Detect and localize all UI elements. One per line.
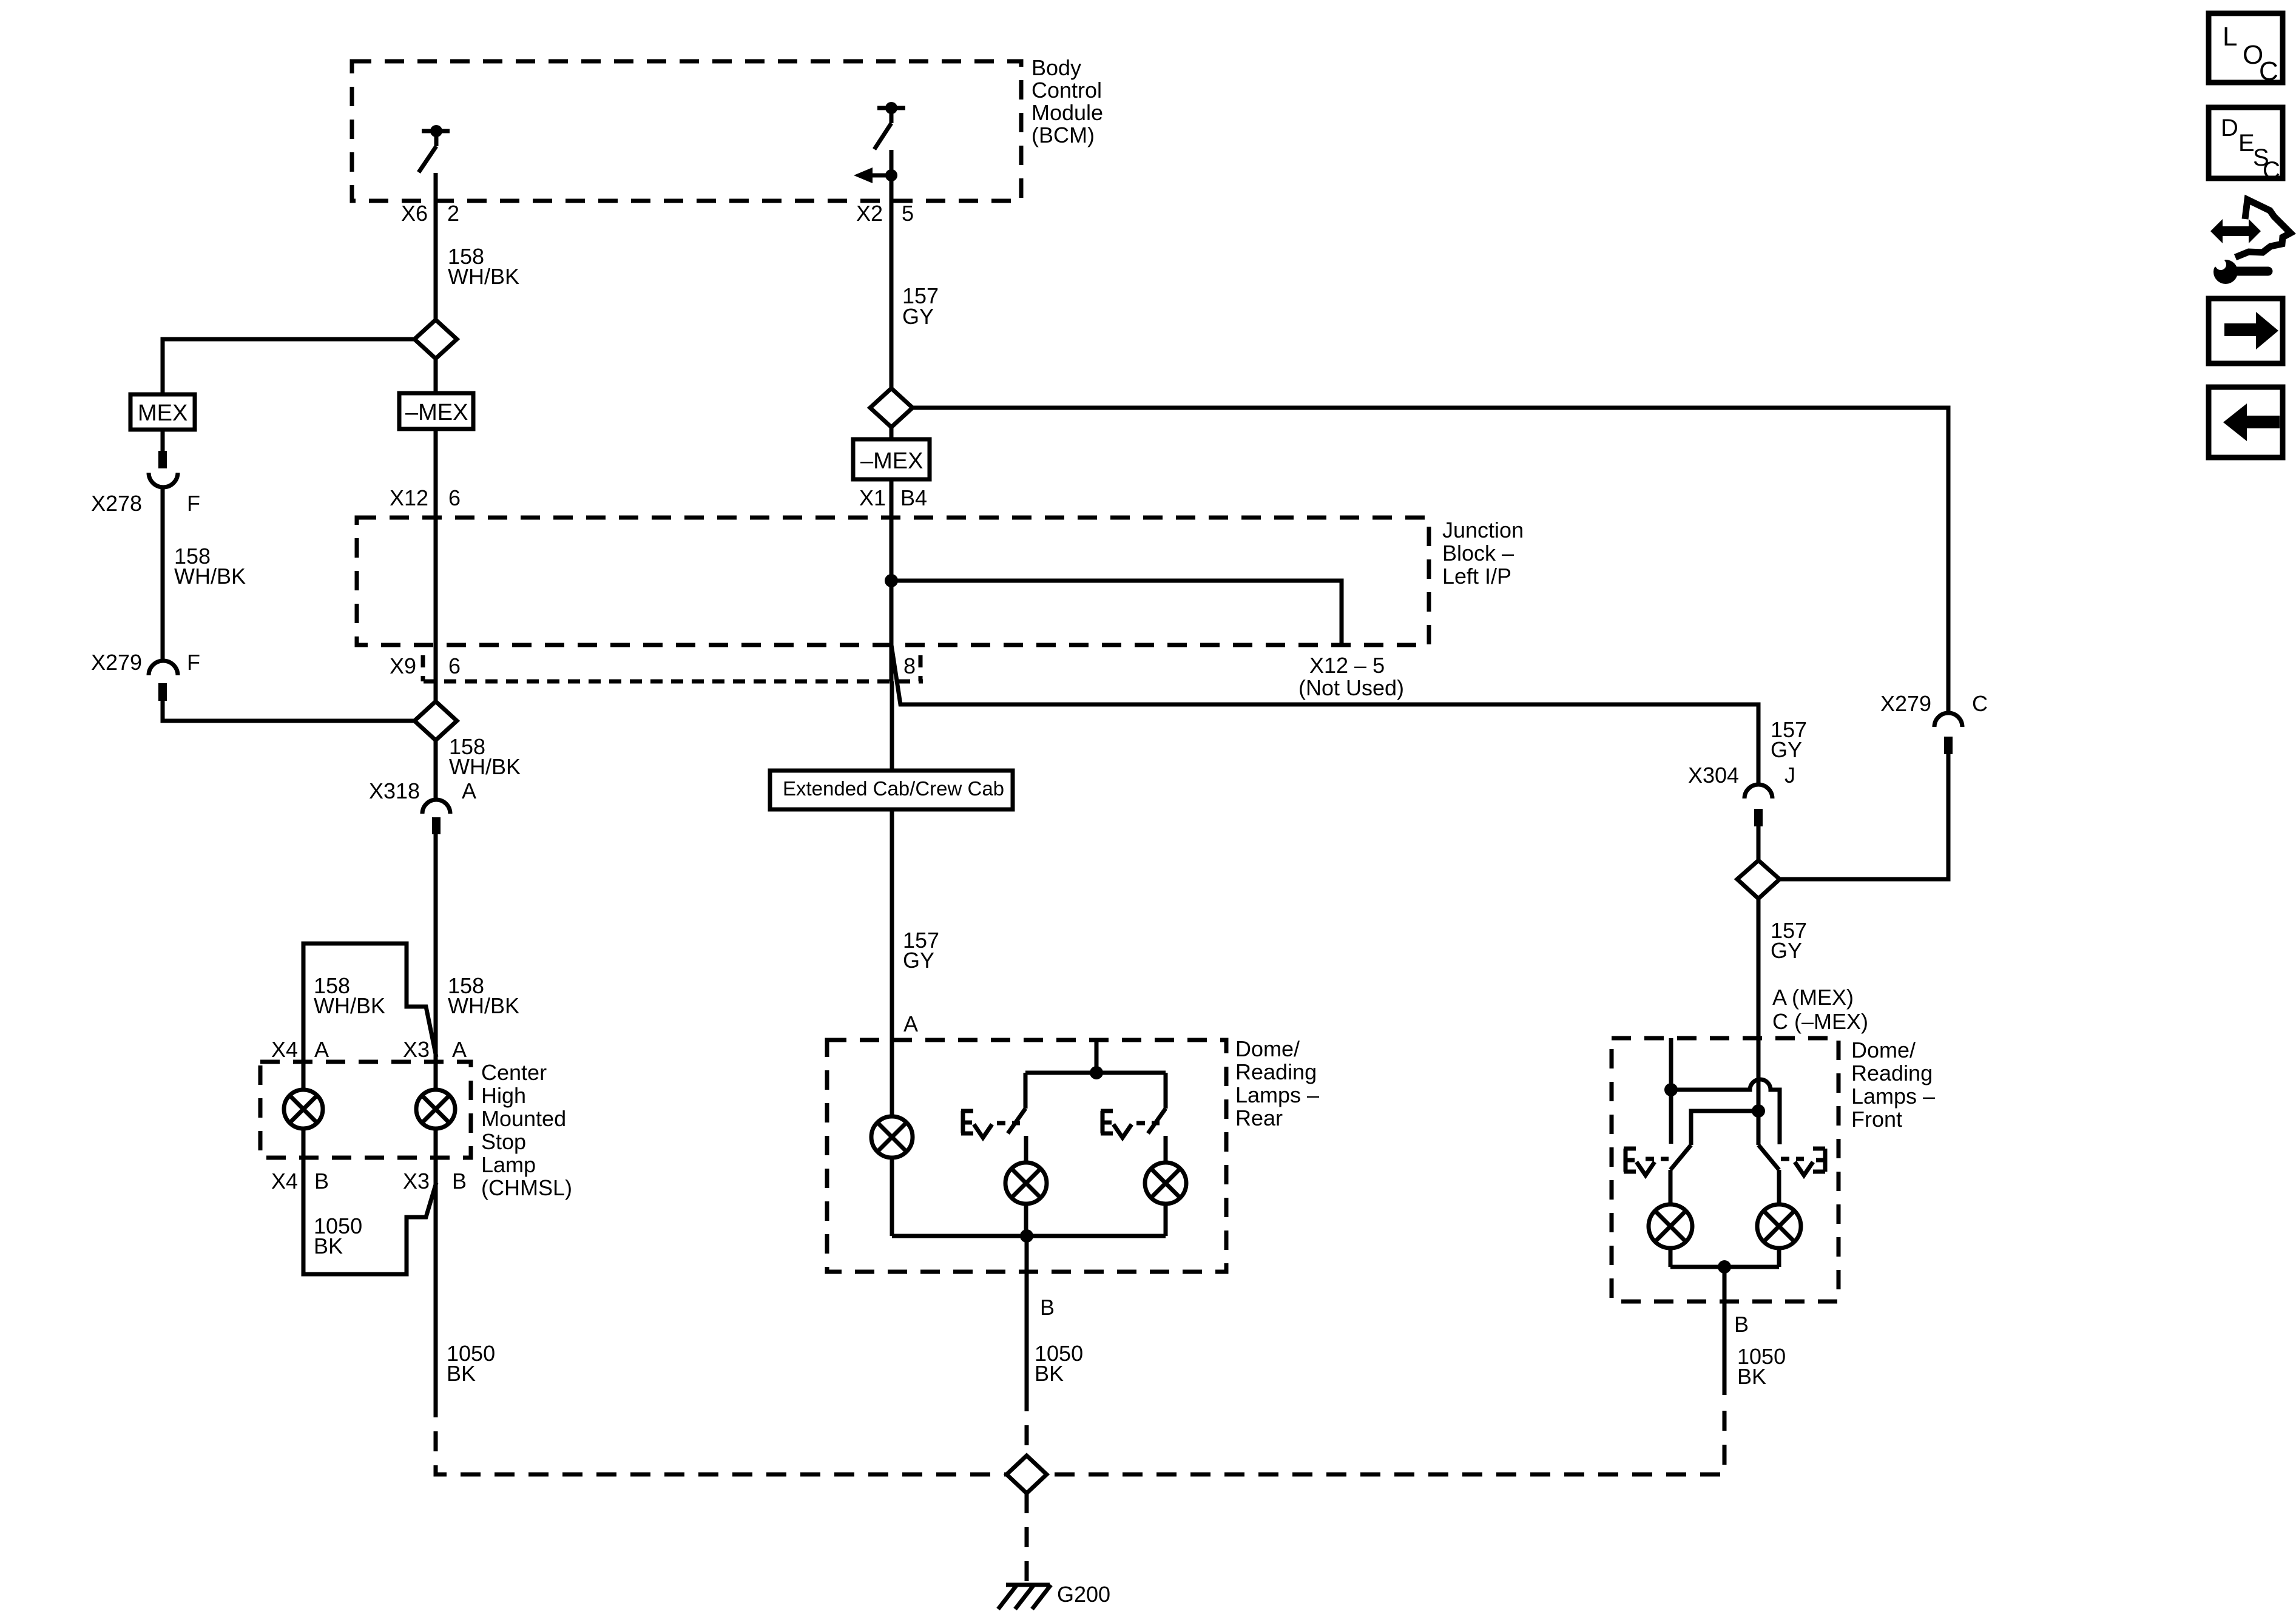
wire inside junction block (center) <box>890 518 894 681</box>
connector X279 pin C <box>1880 691 1988 754</box>
dome/reading lamps front dashed box <box>1612 1038 1838 1301</box>
svg-text:D: D <box>2221 115 2238 141</box>
splice diamond on wire 158 <box>414 320 457 359</box>
svg-text:A: A <box>452 1037 467 1062</box>
wire X279-C down and left to splice diamond 3 <box>1780 754 1948 879</box>
wire MEX box to X278 pin <box>161 430 165 451</box>
pin labels X4 A X3 A <box>271 1037 467 1062</box>
connector X304 pin J <box>1688 763 1795 826</box>
svg-text:Lamps –: Lamps – <box>1851 1084 1935 1109</box>
svg-text:X279: X279 <box>91 650 142 675</box>
svg-text:X1: X1 <box>859 485 886 510</box>
dashed ground middle vertical <box>1025 1391 1029 1455</box>
svg-text:Front: Front <box>1851 1107 1902 1132</box>
svg-text:(BCM): (BCM) <box>1032 123 1095 147</box>
wire from diamond to MEX branch <box>163 339 414 394</box>
–MEX option box on wire 158 <box>399 393 473 429</box>
wire through MEX box down to junction block <box>434 359 438 394</box>
wire inside junction block (left) <box>434 517 438 681</box>
pin labels A (MEX) / C (-MEX) <box>1772 985 1868 1034</box>
wire extended cab to rear lamps <box>890 809 894 1040</box>
svg-text:C: C <box>2263 157 2280 184</box>
pin labels X12 6 <box>390 485 461 510</box>
X12-5 not used label <box>1298 653 1404 700</box>
rear reading switch right <box>1148 1073 1166 1163</box>
svg-text:B: B <box>1734 1312 1749 1337</box>
svg-text:–MEX: –MEX <box>405 400 468 425</box>
front dome bulb left <box>1649 1170 1692 1267</box>
svg-text:GY: GY <box>902 304 934 329</box>
icon LOC box <box>2209 13 2283 86</box>
svg-text:X2: X2 <box>856 201 883 226</box>
front lamps left stub from box top <box>1669 1038 1673 1144</box>
connector X279 pin F <box>91 650 200 701</box>
svg-text:Module: Module <box>1032 100 1103 125</box>
rear lamps ground bus <box>892 1234 1166 1238</box>
svg-text:A: A <box>462 778 476 803</box>
connector X318 pin A <box>369 778 476 834</box>
svg-text:A: A <box>903 1011 918 1036</box>
wire 158 WH/BK between X278 and X279 <box>161 487 165 661</box>
rear reading bulb left <box>1005 1163 1047 1236</box>
svg-text:Dome/: Dome/ <box>1851 1038 1916 1062</box>
wire from switch S2 to X2 pin 5 <box>890 150 894 388</box>
svg-text:X304: X304 <box>1688 763 1739 788</box>
splice diamond 3 <box>1737 860 1780 899</box>
svg-text:(Not Used): (Not Used) <box>1298 675 1404 700</box>
svg-text:GY: GY <box>1771 938 1802 963</box>
ground splice diamond <box>1007 1456 1047 1493</box>
extended cab/crew cab label box <box>770 771 1013 809</box>
svg-text:Center: Center <box>481 1060 547 1085</box>
BCM label <box>1032 55 1103 147</box>
wire X9-6 down to splice diamond 2 <box>434 681 438 701</box>
body control module BCM dashed box <box>352 61 1021 201</box>
svg-text:X9: X9 <box>390 653 416 678</box>
rear lamps ground exit wire <box>1025 1236 1029 1391</box>
svg-text:High: High <box>481 1083 526 1108</box>
wire label 1050 BK bottom left <box>447 1341 495 1386</box>
switch S1 inside BCM (X6-2 output) <box>419 125 450 172</box>
wire X318 to CHMSL <box>434 834 438 1397</box>
wire label 158 WH/BK below splice <box>449 734 521 779</box>
svg-text:Mounted: Mounted <box>481 1106 566 1131</box>
svg-text:Lamp: Lamp <box>481 1152 536 1177</box>
junction dot in block <box>885 574 898 587</box>
icon arrow right box <box>2209 299 2283 363</box>
connector X278 pin F <box>91 451 200 516</box>
svg-text:8: 8 <box>903 653 916 678</box>
svg-text:Body: Body <box>1032 55 1081 80</box>
svg-text:WH/BK: WH/BK <box>174 564 246 589</box>
front lamps crossover wire with hop <box>1671 1079 1780 1144</box>
svg-text:2: 2 <box>447 201 459 226</box>
wire jog from pin 8 <box>891 645 1758 785</box>
svg-text:BK: BK <box>1035 1361 1064 1386</box>
svg-text:Dome/: Dome/ <box>1235 1036 1300 1061</box>
pin labels X9 6 <box>390 653 461 678</box>
icon harness wrench <box>2208 200 2291 284</box>
svg-text:6: 6 <box>448 485 461 510</box>
rear dome bulb (left) on feed wire <box>890 1040 894 1236</box>
dashed ground run from front lamps to splice <box>1047 1411 1724 1474</box>
svg-text:C (–MEX): C (–MEX) <box>1772 1009 1868 1034</box>
wire label 158 WH/BK <box>448 244 519 289</box>
actuator symbol E front left <box>1624 1149 1669 1175</box>
svg-text:(CHMSL): (CHMSL) <box>481 1175 572 1200</box>
svg-text:B: B <box>1040 1295 1055 1320</box>
front switch right blade from main wire <box>1758 1145 1779 1170</box>
svg-text:F: F <box>187 491 200 516</box>
svg-text:Left I/P: Left I/P <box>1442 564 1511 589</box>
wire label 1050 BK right <box>1737 1344 1786 1389</box>
dashed wire diamond to G200 <box>1025 1493 1029 1582</box>
wire from diamond right to X279-C (top run) <box>913 408 1948 712</box>
svg-text:Junction: Junction <box>1442 518 1524 542</box>
svg-text:Reading: Reading <box>1235 1059 1317 1084</box>
svg-text:G200: G200 <box>1057 1582 1110 1607</box>
connector tick X9 <box>421 655 425 681</box>
svg-text:Control: Control <box>1032 78 1102 103</box>
stub to X12-5 not used <box>891 581 1342 645</box>
actuator symbol E right <box>1101 1111 1160 1138</box>
pin labels X1 B4 <box>859 485 927 510</box>
svg-text:Lamps –: Lamps – <box>1235 1082 1319 1107</box>
svg-text:A (MEX): A (MEX) <box>1772 985 1854 1010</box>
wire X304 to splice diamond 3 <box>1757 826 1761 860</box>
CHMSL label <box>481 1060 572 1200</box>
svg-text:6: 6 <box>448 653 461 678</box>
actuator symbol E left <box>961 1111 1020 1138</box>
actuator symbol E front right (mirrored) <box>1781 1149 1825 1175</box>
wire splice 2 to X318 <box>434 740 438 800</box>
wire label 157 GY at X304 <box>1771 717 1807 762</box>
svg-text:X4: X4 <box>271 1037 298 1062</box>
svg-text:BK: BK <box>447 1361 476 1386</box>
svg-text:Stop: Stop <box>481 1129 526 1154</box>
svg-text:F: F <box>187 650 200 675</box>
lower connector row dotted line <box>424 680 923 684</box>
front lamps feed tap wire <box>1752 1104 1765 1118</box>
svg-text:BK: BK <box>314 1234 343 1258</box>
dashed ground run from CHMSL to splice <box>436 1397 1007 1474</box>
svg-text:MEX: MEX <box>138 400 187 426</box>
svg-text:J: J <box>1784 763 1795 788</box>
front ground exit wire <box>1723 1267 1727 1395</box>
svg-text:C: C <box>2259 56 2278 86</box>
connector tick pin 8 <box>919 655 923 681</box>
svg-text:Extended Cab/Crew Cab: Extended Cab/Crew Cab <box>783 777 1004 800</box>
svg-text:X3: X3 <box>403 1169 430 1193</box>
pin labels X2 5 <box>856 201 914 226</box>
svg-text:GY: GY <box>903 948 934 973</box>
pin labels X6 2 <box>401 201 459 226</box>
rear lamps label <box>1235 1036 1319 1130</box>
svg-text:X4: X4 <box>271 1169 298 1193</box>
junction block label <box>1442 518 1524 589</box>
svg-text:GY: GY <box>1771 737 1802 762</box>
wire label 157 GY <box>903 928 939 973</box>
svg-text:5: 5 <box>902 201 914 226</box>
wire label 1050 BK in loop <box>314 1214 362 1258</box>
icon arrow left box <box>2209 387 2283 457</box>
CHMSL ground branch loop (X4-B to 1050) <box>303 1129 436 1274</box>
wire label 1050 BK middle <box>1035 1341 1083 1386</box>
splice diamond on wire 157 <box>870 388 913 427</box>
svg-text:X12: X12 <box>390 485 428 510</box>
svg-text:B: B <box>314 1169 329 1193</box>
icon DESC box <box>2209 107 2283 184</box>
splice diamond 2 on wire 158 <box>414 701 457 740</box>
rear reading bulb right <box>1145 1163 1186 1236</box>
rear reading switch left <box>1008 1073 1026 1163</box>
svg-text:WH/BK: WH/BK <box>449 754 521 779</box>
ground symbol G200 <box>998 1582 1110 1609</box>
wire label 157 GY below diamond 3 <box>1771 918 1807 963</box>
front lamps label <box>1851 1038 1935 1132</box>
CHMSL bulb right <box>416 1090 455 1129</box>
CHMSL feed branch loop (158 to X4-A) <box>303 944 436 1090</box>
–MEX option box on wire 157 <box>853 439 930 479</box>
svg-text:A: A <box>314 1037 329 1062</box>
svg-text:X318: X318 <box>369 778 420 803</box>
CHMSL dashed box <box>260 1062 471 1158</box>
svg-text:WH/BK: WH/BK <box>448 264 519 289</box>
front switch left blade <box>1670 1145 1691 1170</box>
svg-text:–MEX: –MEX <box>860 448 923 474</box>
MEX option box <box>130 394 195 430</box>
arrow junction at BCM output <box>854 167 897 183</box>
pin labels X4 B X3 B <box>271 1169 467 1193</box>
CHMSL bulb left <box>284 1090 323 1129</box>
svg-text:Reading: Reading <box>1851 1061 1933 1085</box>
front feed wire below tap dot <box>1757 1111 1761 1145</box>
svg-text:X3: X3 <box>403 1037 430 1062</box>
svg-text:WH/BK: WH/BK <box>314 993 385 1018</box>
front dome bulb right <box>1757 1170 1801 1267</box>
svg-text:B4: B4 <box>900 485 927 510</box>
svg-text:B: B <box>452 1169 467 1193</box>
wire pin 8 down to extended cab <box>890 681 894 771</box>
svg-text:C: C <box>1972 691 1988 716</box>
svg-text:X6: X6 <box>401 201 428 226</box>
switch S2 inside BCM (X2-5 output) <box>874 102 905 149</box>
CHMSL labels 158 WH/BK left and right <box>314 973 385 1018</box>
svg-text:E: E <box>2238 130 2255 157</box>
wire label 157 GY <box>902 283 939 329</box>
junction block left I/P dashed box <box>357 518 1429 645</box>
svg-text:WH/BK: WH/BK <box>448 993 519 1018</box>
svg-text:Rear: Rear <box>1235 1106 1283 1130</box>
svg-text:X12 – 5: X12 – 5 <box>1309 653 1385 678</box>
rear lamps internal feed bus <box>1095 1040 1099 1073</box>
svg-text:X278: X278 <box>91 491 142 516</box>
svg-text:Block –: Block – <box>1442 541 1514 565</box>
svg-text:L: L <box>2223 22 2237 52</box>
wire from switch S1 to X6 pin 2 <box>434 173 438 319</box>
wire X279 to splice diamond 2 <box>163 701 414 721</box>
dome/reading lamps rear dashed box <box>827 1040 1226 1272</box>
front lamps ground bus <box>1670 1265 1779 1269</box>
wire diamond 3 to front lamps <box>1757 899 1761 1111</box>
svg-text:X279: X279 <box>1880 691 1931 716</box>
svg-text:BK: BK <box>1737 1364 1766 1389</box>
